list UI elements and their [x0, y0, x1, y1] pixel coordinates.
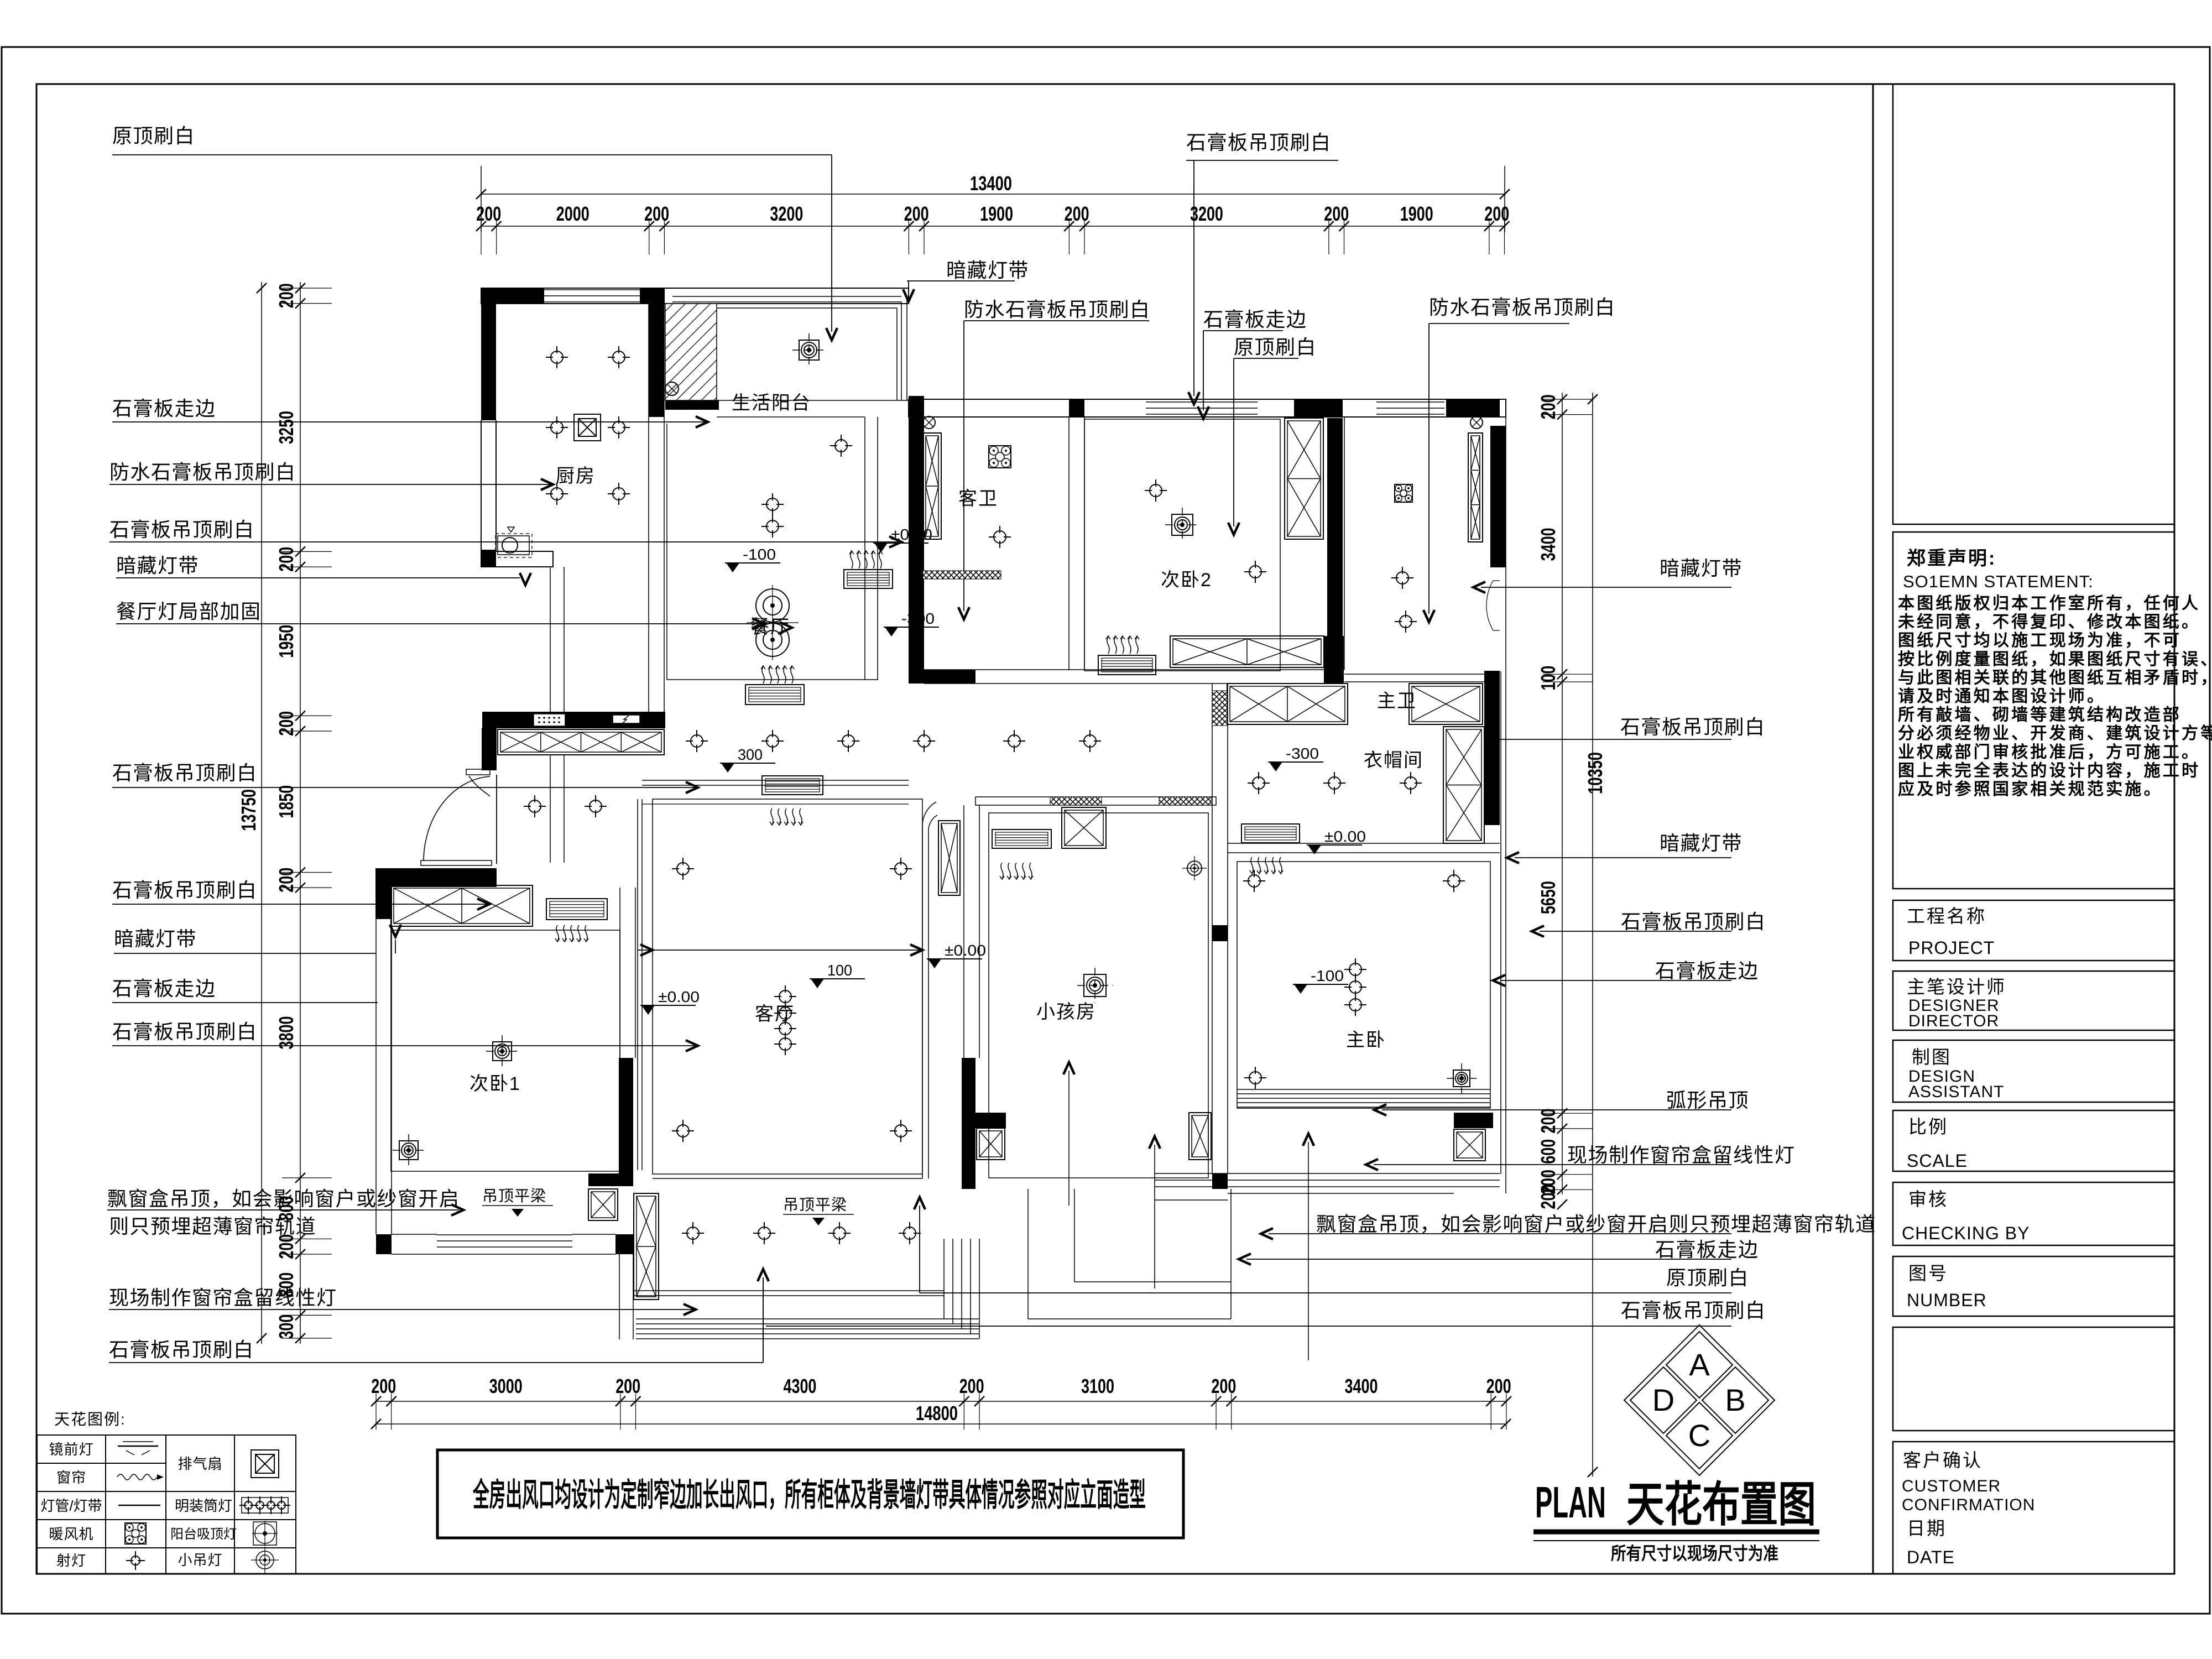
svg-text:3200: 3200: [1190, 202, 1223, 225]
louver closet: [1241, 824, 1300, 843]
plan title underline: [1533, 1530, 1819, 1535]
level marker corridor 300: [720, 763, 775, 764]
wardrobe closet right tall xbox: [1443, 727, 1484, 843]
svg-text:100: 100: [827, 962, 852, 979]
svg-text:200: 200: [615, 1375, 640, 1397]
svg-text:100: 100: [1537, 666, 1559, 691]
svg-text:300: 300: [738, 746, 763, 763]
level marker dining +0.00: [873, 542, 928, 544]
louver dining: [844, 570, 893, 588]
wall kidsroom-living double: [963, 805, 964, 1058]
svg-text:客厅: 客厅: [755, 1004, 795, 1025]
wall master bay left black: [1212, 1173, 1228, 1189]
svg-text:13400: 13400: [970, 172, 1012, 195]
svg-text:13750: 13750: [237, 789, 260, 831]
svg-text:明装筒灯: 明装筒灯: [175, 1498, 232, 1514]
svg-text:所有敲墙、砌墙等建筑结构改造部: 所有敲墙、砌墙等建筑结构改造部: [1898, 706, 2182, 724]
svg-text:石膏板走边: 石膏板走边: [1655, 959, 1759, 982]
svg-text:1900: 1900: [1400, 202, 1433, 225]
exhaust fan kitchen: [574, 414, 601, 441]
svg-text:300: 300: [275, 1314, 298, 1339]
arrow living bay up leader: [763, 1277, 764, 1360]
svg-text:餐厅: 餐厅: [750, 617, 790, 638]
arrow master bay up leader A: [1154, 1145, 1155, 1288]
svg-text:SO1EMN STATEMENT:: SO1EMN STATEMENT:: [1903, 572, 2094, 591]
vent kidsroom-east xbox: [977, 1128, 1005, 1160]
vent bedroom1 small xbox: [588, 1189, 618, 1220]
svg-text:200: 200: [1486, 1375, 1511, 1397]
svg-text:2000: 2000: [556, 202, 589, 225]
vent bedroom2 tall xbox: [1285, 418, 1323, 539]
dining ceiling outline: [666, 424, 667, 680]
louver bedroom2: [1098, 655, 1156, 675]
svg-text:防水石膏板吊顶刷白: 防水石膏板吊顶刷白: [1429, 296, 1616, 319]
svg-text:3200: 3200: [770, 202, 803, 225]
legend symbol exhaust fan: [251, 1450, 279, 1478]
window bedroom1 bottom: [437, 1234, 572, 1235]
svg-text:暖风机: 暖风机: [49, 1526, 93, 1542]
svg-text:防水石膏板吊顶刷白: 防水石膏板吊顶刷白: [109, 461, 296, 483]
recessed spotlights: [551, 351, 563, 363]
svg-text:石膏板吊顶刷白: 石膏板吊顶刷白: [112, 879, 258, 901]
svg-text:D: D: [1652, 1383, 1674, 1417]
svg-text:吊顶平梁: 吊顶平梁: [482, 1187, 546, 1204]
svg-text:小孩房: 小孩房: [1036, 1001, 1096, 1022]
hatch balcony duct area: [665, 304, 717, 400]
svg-text:衣帽间: 衣帽间: [1364, 750, 1423, 771]
svg-text:暗藏灯带: 暗藏灯带: [1660, 557, 1743, 580]
svg-text:C: C: [1688, 1418, 1710, 1453]
ceiling outline kidsroom: [989, 813, 1208, 1178]
window masterbath top: [1376, 401, 1444, 403]
ceiling outline bedroom1: [391, 930, 620, 1171]
svg-text:-100: -100: [1311, 967, 1344, 984]
svg-text:暗藏灯带: 暗藏灯带: [946, 259, 1029, 281]
svg-text:石膏板吊顶刷白: 石膏板吊顶刷白: [109, 518, 255, 541]
svg-text:200: 200: [1211, 1375, 1236, 1397]
svg-text:所有尺寸以现场尺寸为准: 所有尺寸以现场尺寸为准: [1611, 1543, 1778, 1563]
cabinet bedroom1 top xbox: [391, 885, 533, 926]
square downlight kidsroom: [1084, 974, 1106, 997]
svg-text:200: 200: [275, 1234, 298, 1259]
svg-text:±0.00: ±0.00: [1324, 828, 1366, 845]
svg-text:PROJECT: PROJECT: [1908, 938, 1995, 958]
bay window kids room: [1027, 1189, 1029, 1319]
svg-text:NUMBER: NUMBER: [1907, 1290, 1987, 1310]
svg-text:石膏板吊顶刷白: 石膏板吊顶刷白: [112, 1020, 258, 1043]
level marker dining -100: [725, 562, 780, 564]
svg-text:原顶刷白: 原顶刷白: [1234, 336, 1317, 358]
wall master bedroom divider: [1228, 843, 1500, 844]
wall bedroom1 bottom black left: [376, 1234, 392, 1254]
door masterbath: [1493, 580, 1500, 581]
vent master-left xbox: [1189, 1113, 1211, 1160]
ceiling outline living top: [642, 804, 909, 805]
svg-text:PLAN: PLAN: [1535, 1478, 1606, 1527]
svg-text:CONFIRMATION: CONFIRMATION: [1902, 1496, 2035, 1514]
wall kidsroom top band: [975, 797, 1216, 805]
svg-text:3400: 3400: [1345, 1375, 1378, 1397]
wall closet right black: [1484, 671, 1500, 825]
level marker living +0.00 right: [927, 958, 982, 959]
corridor ceiling double line vertical: [637, 799, 638, 1170]
cabinet closet xbox B: [1409, 684, 1483, 724]
svg-text:3250: 3250: [275, 411, 298, 444]
cabinet closet xbox A: [1227, 684, 1348, 724]
cabinet entry top xbox: [498, 729, 664, 755]
svg-text:主卫: 主卫: [1377, 691, 1417, 712]
svg-text:客户确认: 客户确认: [1903, 1450, 1983, 1470]
checker box: [1893, 1182, 2174, 1245]
legend symbol spotlight: [131, 1556, 140, 1565]
ceiling fan light master bedroom: [1453, 1070, 1470, 1087]
svg-text:200: 200: [1065, 202, 1089, 225]
svg-text:±0.00: ±0.00: [891, 526, 932, 543]
svg-text:业权威部门审核批准后，方可施工。: 业权威部门审核批准后，方可施工。: [1898, 743, 2200, 761]
wall bedroom1 bottom lines: [392, 1234, 437, 1235]
ceiling outline bedroom2: [1084, 419, 1280, 671]
svg-text:ASSISTANT: ASSISTANT: [1908, 1083, 2004, 1101]
svg-text:主笔设计师: 主笔设计师: [1907, 977, 2006, 997]
wall bedroom1 left double: [375, 918, 377, 1234]
dining right ceiling double: [864, 417, 865, 680]
svg-text:B: B: [1725, 1383, 1745, 1417]
svg-text:请及时通知本图设计师。: 请及时通知本图设计师。: [1898, 687, 2106, 706]
hatch kidsroom top glass2: [1159, 797, 1211, 805]
hatch guestbath shower screen: [923, 571, 1001, 579]
arrow master bay up leader B: [1308, 1142, 1309, 1360]
wall bedroom1 right black: [619, 1058, 633, 1186]
svg-text:吊顶平梁: 吊顶平梁: [783, 1196, 847, 1213]
general note box: [437, 1450, 1183, 1538]
window bedroom2 top: [1146, 401, 1258, 403]
scale box: [1893, 1110, 2174, 1171]
statement box: [1893, 532, 2174, 889]
wall bedroom1 bottom black right: [615, 1234, 633, 1254]
svg-text:±0.00: ±0.00: [658, 988, 700, 1005]
svg-text:飘窗盒吊顶，如会影响窗户或纱窗开启: 飘窗盒吊顶，如会影响窗户或纱窗开启: [107, 1187, 460, 1210]
svg-text:镜前灯: 镜前灯: [49, 1441, 93, 1458]
lamp circle-x masterbath: [1470, 416, 1483, 429]
top segment dimensions 200/2000/200/3200/200/1900/200/3200/200/1900/200: [481, 226, 1505, 227]
level marker master -100: [1293, 984, 1348, 985]
svg-text:200: 200: [959, 1375, 984, 1397]
svg-text:现场制作窗帘盒留线性灯: 现场制作窗帘盒留线性灯: [109, 1286, 337, 1309]
right overall dimension 10350: [1592, 393, 1593, 1477]
entry smoke detector white box: [534, 714, 565, 726]
svg-text:排气扇: 排气扇: [178, 1455, 222, 1472]
wall bedroom2 bottom pillar black: [1324, 636, 1344, 684]
svg-text:应及时参照国家相关规范实施。: 应及时参照国家相关规范实施。: [1898, 780, 2163, 799]
svg-text:主卧: 主卧: [1346, 1030, 1386, 1051]
svg-text:1850: 1850: [275, 785, 298, 818]
svg-text:次卧1: 次卧1: [469, 1073, 521, 1094]
svg-text:1900: 1900: [980, 202, 1013, 225]
wall entry-dining vertical lines: [550, 567, 551, 712]
louver corridor B: [762, 776, 823, 795]
legend symbol mirror light: [118, 1446, 158, 1447]
svg-text:200: 200: [644, 202, 669, 225]
svg-text:石膏板走边: 石膏板走边: [1203, 308, 1307, 331]
svg-text:200: 200: [1324, 202, 1349, 225]
corridor ceiling double line horizontal: [642, 780, 909, 781]
svg-text:未经同意，不得复印、修改本图纸。: 未经同意，不得复印、修改本图纸。: [1898, 613, 2200, 632]
number box: [1893, 1256, 2174, 1316]
svg-text:防水石膏板吊顶刷白: 防水石膏板吊顶刷白: [964, 298, 1151, 321]
svg-text:5650: 5650: [1537, 881, 1559, 914]
right segment dimensions 200/3400/100/5650/200/600/200/200: [1562, 393, 1563, 1194]
svg-text:工程名称: 工程名称: [1907, 906, 1986, 926]
lamp circle-x guestbath: [923, 416, 935, 429]
svg-text:阳台吸顶灯: 阳台吸顶灯: [170, 1527, 237, 1542]
living right ceiling double with corner arc: [922, 802, 936, 1178]
svg-text:全房出风口均设计为定制窄边加长出风口，所有柜体及背景墙灯带具: 全房出风口均设计为定制窄边加长出风口，所有柜体及背景墙灯带具体情况参照对应立面造…: [472, 1477, 1146, 1513]
customer box: [1893, 1442, 2174, 1574]
svg-text:石膏板吊顶刷白: 石膏板吊顶刷白: [1621, 1299, 1766, 1322]
svg-text:3000: 3000: [489, 1375, 523, 1397]
svg-text:CHECKING BY: CHECKING BY: [1902, 1223, 2030, 1243]
wall above entry door black: [482, 728, 497, 770]
legend symbol small pendant: [256, 1551, 274, 1569]
svg-text:200: 200: [275, 283, 298, 308]
wall closet left double: [1212, 684, 1213, 1173]
wall guestbath-bedroom2 double: [1068, 417, 1070, 670]
wall kitchen band outline: [481, 288, 664, 304]
wall bedroom1-corridor double: [619, 888, 620, 1058]
svg-text:窗帘: 窗帘: [56, 1469, 86, 1486]
level marker corridor +0.00: [640, 1005, 696, 1006]
svg-text:200: 200: [275, 547, 298, 572]
svg-text:图号: 图号: [1908, 1263, 1948, 1284]
wall bedroom2 top-right black: [1294, 399, 1343, 417]
spare box: [1893, 1327, 2174, 1431]
wall kidsroom left black: [962, 1058, 975, 1189]
svg-text:餐厅灯局部加固: 餐厅灯局部加固: [116, 600, 262, 623]
svg-text:原顶刷白: 原顶刷白: [1666, 1266, 1749, 1289]
svg-text:A: A: [1689, 1347, 1710, 1382]
level marker living 100: [810, 978, 865, 979]
svg-text:射灯: 射灯: [56, 1552, 86, 1569]
level marker closet +0.00: [1307, 844, 1362, 846]
wall entry band black: [482, 712, 665, 728]
svg-text:石膏板走边: 石膏板走边: [1655, 1238, 1759, 1261]
level marker closet -300: [1268, 761, 1323, 763]
svg-text:石膏板吊顶刷白: 石膏板吊顶刷白: [1621, 910, 1766, 933]
ceiling fan light bedroom1 B: [399, 1141, 418, 1160]
louver corridor A: [745, 685, 804, 705]
wall dining-guestbath black: [909, 396, 924, 684]
wall kitchen top-left black: [481, 288, 544, 304]
wall closet-masterbath boundary: [1344, 674, 1500, 675]
svg-text:SCALE: SCALE: [1907, 1151, 1968, 1171]
level marker dining -300: [884, 627, 939, 628]
svg-text:则只预埋超薄窗帘轨道: 则只预埋超薄窗帘轨道: [109, 1215, 316, 1238]
wall bedroom1 top black L: [375, 868, 497, 887]
svg-text:暗藏灯带: 暗藏灯带: [1660, 832, 1743, 854]
svg-text:DATE: DATE: [1907, 1547, 1955, 1567]
svg-text:3400: 3400: [1537, 528, 1559, 561]
svg-text:比例: 比例: [1908, 1117, 1948, 1137]
legend symbol surface downlights: [242, 1498, 288, 1513]
svg-text:200: 200: [275, 711, 298, 736]
svg-text:次卧2: 次卧2: [1161, 570, 1212, 591]
svg-text:生活阳台: 生活阳台: [732, 393, 811, 414]
bottom overall dimension 14800: [376, 1423, 1506, 1425]
ceiling fan light bedroom1 A: [493, 1042, 512, 1061]
entry door: [466, 769, 490, 775]
wall kitchen bottom black: [481, 550, 496, 567]
ceiling outline living big rect: [653, 799, 922, 1174]
hatch closet left strip: [1212, 691, 1227, 726]
svg-text:3100: 3100: [1081, 1375, 1114, 1397]
left segment dimensions 200/3250/200/1950/200/1850/200/3800/800/200/800/300: [300, 282, 301, 1344]
svg-text:灯管/灯带: 灯管/灯带: [40, 1498, 102, 1514]
heater fan guestbath: [989, 446, 1011, 468]
svg-text:客卫: 客卫: [958, 488, 998, 509]
ceiling cove balcony triple line: [672, 296, 901, 297]
cabinet bedroom2 bottom xbox: [1170, 636, 1324, 667]
svg-text:与此图相关联的其他图纸互相矛盾时，: 与此图相关联的其他图纸互相矛盾时，: [1898, 669, 2212, 687]
svg-text:天花布置图: 天花布置图: [1626, 1478, 1816, 1531]
legend symbol heater fan: [125, 1523, 146, 1544]
wall guestbath bottom stub black: [924, 670, 975, 684]
wall masterbath top-right black L: [1446, 399, 1500, 417]
vent living tall xbox: [938, 821, 960, 895]
svg-text:按比例度量图纸，如果图纸尺寸有误、或: 按比例度量图纸，如果图纸尺寸有误、或: [1898, 650, 2212, 669]
svg-text:200: 200: [1537, 1109, 1559, 1134]
svg-text:石膏板吊顶刷白: 石膏板吊顶刷白: [1186, 131, 1332, 154]
entry switch white box: [613, 715, 640, 723]
svg-text:200: 200: [1537, 394, 1559, 419]
svg-text:暗藏灯带: 暗藏灯带: [116, 554, 199, 577]
wall master bedroom right bottom black: [1454, 1113, 1493, 1128]
svg-text:飘窗盒吊顶，如会影响窗户或纱窗开启则只预埋超薄窗帘轨道: 飘窗盒吊顶，如会影响窗户或纱窗开启则只预埋超薄窗帘轨道: [1316, 1213, 1876, 1235]
arrow kidsroom up leader: [1068, 1071, 1070, 1206]
vent kidsroom xbox: [1062, 807, 1106, 848]
svg-text:1950: 1950: [275, 625, 298, 658]
heater fan masterbath: [1395, 484, 1412, 502]
svg-text:200: 200: [904, 202, 929, 225]
svg-text:4300: 4300: [783, 1375, 816, 1397]
svg-text:石膏板吊顶刷白: 石膏板吊顶刷白: [112, 761, 258, 784]
wall balcony duct bottom black: [665, 400, 719, 410]
svg-text:CUSTOMER: CUSTOMER: [1902, 1477, 2001, 1495]
svg-text:制图: 制图: [1912, 1047, 1952, 1067]
orientation compass diamond ABCD: [1666, 1332, 1733, 1398]
wall kitchen left black: [481, 288, 496, 420]
vent bedroom1 tall xbox: [634, 1193, 659, 1300]
bay window master bedroom sills: [1155, 1173, 1500, 1174]
wall rightwing bottom band: [924, 669, 1344, 670]
louver kidsroom: [992, 830, 1051, 848]
legend symbol curtain: [117, 1474, 157, 1480]
svg-text:-300: -300: [1286, 745, 1319, 762]
wall kitchen top-right pillar black: [640, 288, 664, 304]
svg-text:200: 200: [371, 1375, 396, 1397]
bottom segment dimensions 200/3000/200/4300/200/3100/200/3400/200: [376, 1401, 1506, 1402]
title block empty box: [1893, 84, 2174, 524]
svg-text:石膏板吊顶刷白: 石膏板吊顶刷白: [1620, 716, 1766, 738]
louver bedroom1: [546, 899, 607, 920]
water heater kitchen: [498, 536, 529, 555]
svg-text:200: 200: [1484, 202, 1509, 225]
svg-text:郑重声明:: 郑重声明:: [1907, 548, 1996, 569]
svg-text:厨房: 厨房: [556, 466, 596, 487]
svg-text:200: 200: [476, 202, 501, 225]
svg-text:3800: 3800: [275, 1016, 298, 1050]
wall rightwing top band: [909, 399, 1506, 417]
svg-text:DIRECTOR: DIRECTOR: [1908, 1012, 1999, 1030]
vent guestbath tall xbox: [923, 433, 941, 539]
svg-text:石膏板走边: 石膏板走边: [112, 977, 216, 1000]
svg-text:日期: 日期: [1907, 1518, 1947, 1538]
ceiling arc lines master bedroom: [1237, 1089, 1490, 1090]
svg-text:小吊灯: 小吊灯: [178, 1552, 222, 1568]
svg-text:暗藏灯带: 暗藏灯带: [114, 927, 197, 950]
svg-text:弧形吊顶: 弧形吊顶: [1666, 1089, 1749, 1112]
svg-text:200: 200: [1537, 1185, 1559, 1209]
wall balcony-dining boundary band: [717, 400, 909, 401]
svg-text:审核: 审核: [1908, 1189, 1948, 1209]
wall kitchen bottom band: [481, 551, 553, 567]
symbol lamp circle-cross balcony duct: [665, 382, 679, 395]
svg-text:±0.00: ±0.00: [945, 942, 986, 959]
svg-text:图纸尺寸均以施工现场为准，不可: 图纸尺寸均以施工现场为准，不可: [1898, 632, 2182, 650]
wall closet left black segment: [1212, 925, 1228, 941]
designer box: [1893, 971, 2174, 1030]
wall balcony top band: [664, 288, 909, 304]
legend symbol balcony lamp: [253, 1522, 276, 1545]
vent masterbath tall xbox: [1468, 433, 1483, 542]
svg-text:-300: -300: [901, 610, 935, 627]
wall right outer line: [1505, 399, 1506, 1193]
wall guestbath right pillar black: [1069, 399, 1084, 417]
ceiling fan light bedroom2: [1172, 514, 1193, 535]
svg-text:-100: -100: [743, 546, 776, 563]
bay window living room nested sills: [636, 1318, 979, 1319]
svg-text:14800: 14800: [916, 1402, 958, 1425]
svg-text:原顶刷白: 原顶刷白: [112, 124, 195, 147]
ceiling lamp balcony: [799, 340, 819, 360]
svg-text:200: 200: [275, 868, 298, 893]
svg-text:天花图例:: 天花图例:: [54, 1411, 126, 1428]
svg-text:图上未完全表达的设计内容，施工时: 图上未完全表达的设计内容，施工时: [1898, 761, 2200, 780]
svg-text:分必须经物业、开发商、建筑设计方等专: 分必须经物业、开发商、建筑设计方等专: [1898, 724, 2212, 743]
legend symbol light strip: [118, 1505, 160, 1506]
ceiling outline master bedroom: [1237, 862, 1490, 1108]
chandelier dining pair: [756, 589, 789, 622]
window kitchen top: [544, 289, 640, 290]
title block divider line: [1872, 84, 1874, 1574]
ceiling lamp kidsroom round: [1187, 861, 1202, 875]
left overall dimension 13750: [261, 282, 262, 1344]
legend table grid: [37, 1435, 296, 1574]
svg-text:本图纸版权归本工作室所有，任何人: 本图纸版权归本工作室所有，任何人: [1898, 594, 2200, 613]
svg-text:石膏板吊顶刷白: 石膏板吊顶刷白: [109, 1338, 254, 1361]
svg-text:现场制作窗帘盒留线性灯: 现场制作窗帘盒留线性灯: [1567, 1144, 1796, 1166]
vent master-right xbox: [1454, 1129, 1485, 1161]
wall bedroom2-masterbath double: [1328, 542, 1329, 670]
leader line across living room: [638, 950, 922, 951]
svg-text:600: 600: [1537, 1139, 1559, 1164]
project box: [1893, 900, 2174, 961]
svg-text:10350: 10350: [1584, 752, 1606, 794]
svg-text:石膏板走边: 石膏板走边: [112, 397, 216, 420]
draftsman box: [1893, 1040, 2174, 1102]
hatch kidsroom top glass1: [1050, 797, 1102, 805]
